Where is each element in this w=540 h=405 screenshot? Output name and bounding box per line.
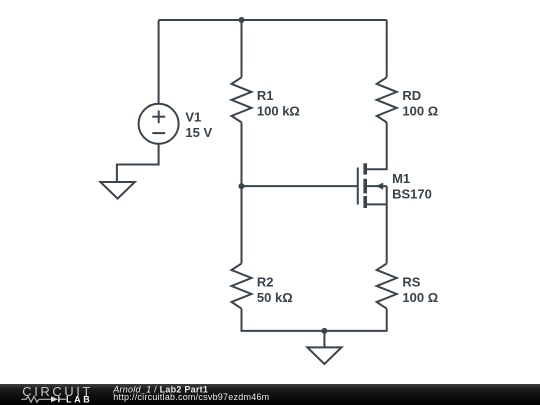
node bottom junction [321,328,327,334]
label M1 [392,171,432,201]
svg-text:100 Ω: 100 Ω [402,290,438,305]
wire top rail [159,19,387,21]
label RS [402,275,438,306]
label V1 [185,110,212,140]
wire middle rail R1 to R2 [241,122,243,263]
svg-text:RS: RS [402,275,420,290]
wire M1 body/source to RS [386,186,388,263]
label RD [402,88,438,119]
wire bottom rail [242,309,387,331]
node top junction [239,17,245,23]
wire V1 bottom to ground [117,144,159,182]
wire middle rail top to R1 [241,20,243,77]
label R2 [257,275,293,306]
footer bar [0,384,540,405]
svg-text:50 kΩ: 50 kΩ [257,290,293,305]
logo zigzag-diode glyph [21,396,66,402]
svg-text:V1: V1 [185,110,201,125]
resistor RD [377,77,397,122]
wire right rail top to RD [386,20,388,77]
svg-text:BS170: BS170 [392,186,432,201]
svg-text:RD: RD [402,88,421,103]
svg-text:100 Ω: 100 Ω [402,104,438,119]
ground left [100,182,134,199]
svg-text:R2: R2 [257,275,274,290]
resistor RS [377,264,397,309]
wire stub to bottom ground [323,331,325,348]
svg-text:http://circuitlab.com/csvb97ez: http://circuitlab.com/csvb97ezdm46m [113,392,269,402]
svg-text:15 V: 15 V [185,125,212,140]
svg-text:LAB: LAB [66,394,92,404]
svg-text:100 kΩ: 100 kΩ [257,104,300,119]
wire gate node to M1 gate [242,185,358,187]
transistor M1 [358,163,387,208]
svg-text:M1: M1 [392,171,410,186]
resistor R1 [232,77,252,122]
wire left rail to V1 [158,20,160,104]
wire RD bottom to M1 drain [367,122,387,169]
label R1 [257,88,300,119]
node gate junction [239,183,245,189]
svg-text:R1: R1 [257,88,274,103]
voltage source V1 [139,104,179,144]
ground bottom [307,347,341,364]
resistor R2 [232,264,252,309]
